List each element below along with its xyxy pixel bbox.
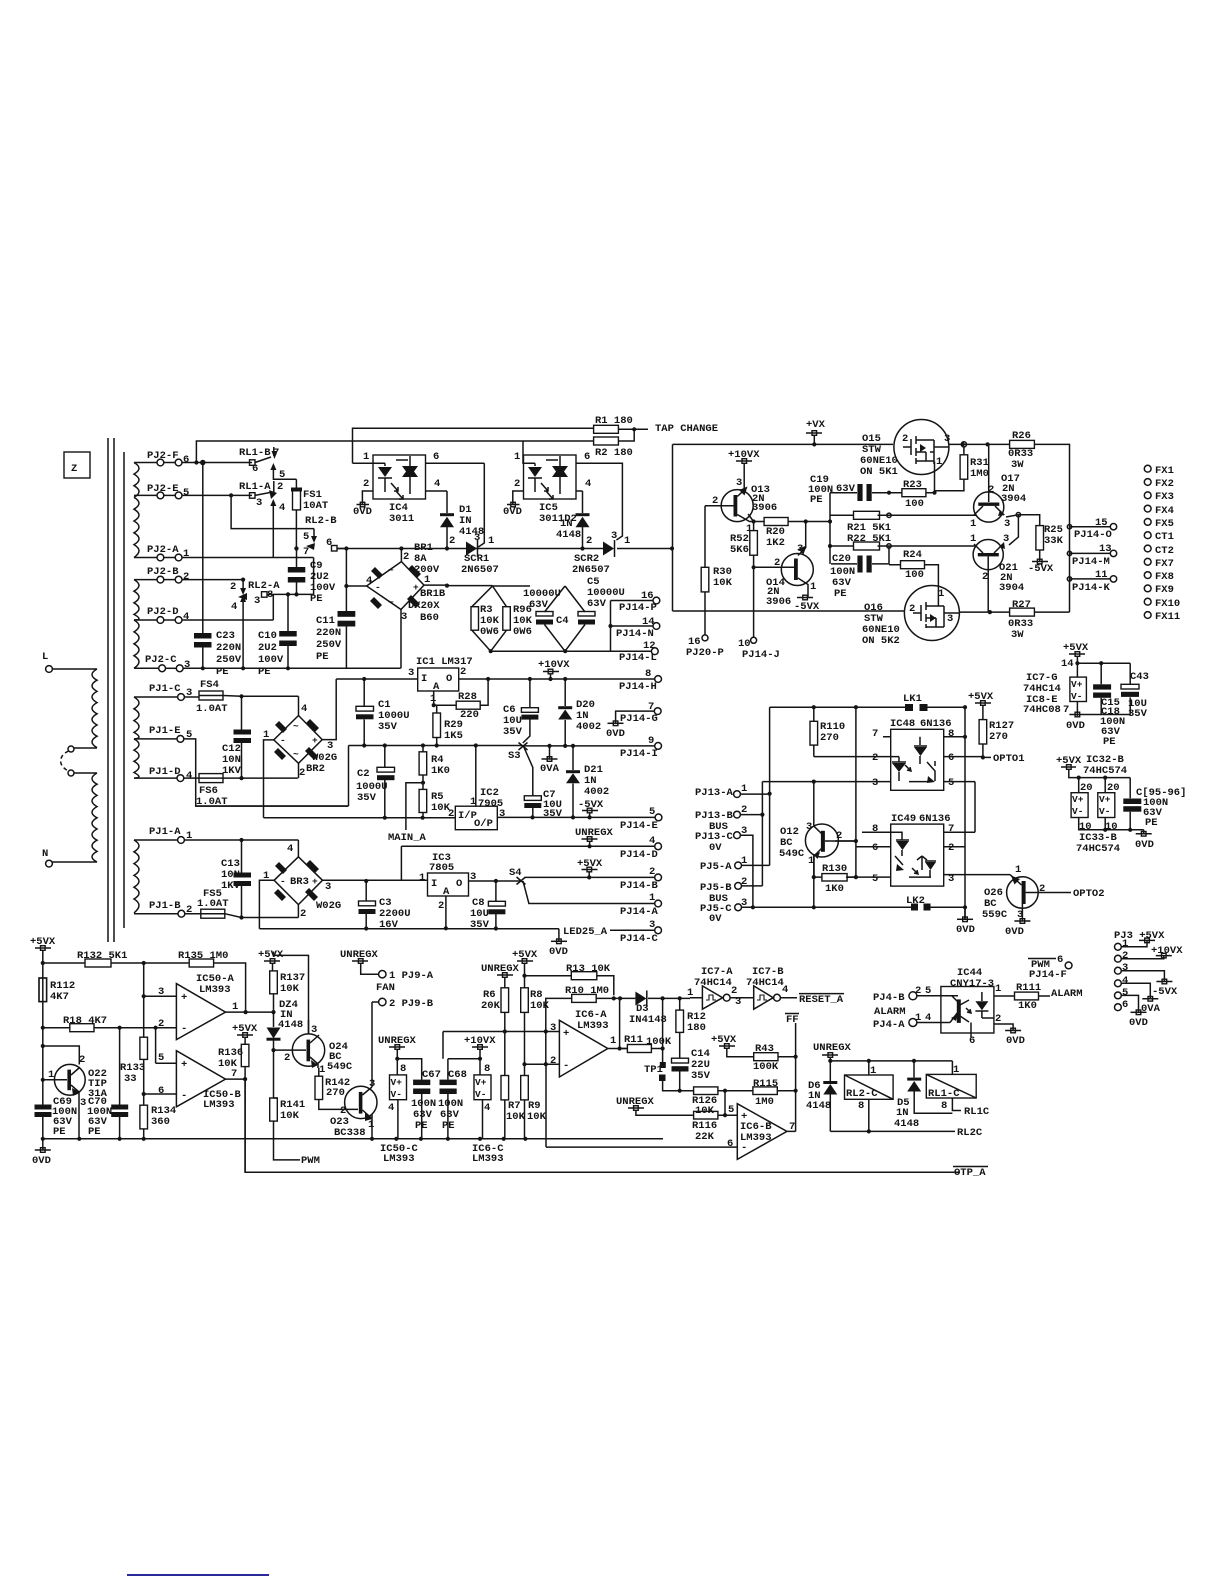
svg-text:4: 4: [287, 843, 293, 855]
transistor O21: [970, 533, 1024, 612]
inverter IC7-B: [735, 966, 797, 1009]
wire top rail y963: [41, 961, 246, 1012]
svg-text:5: 5: [872, 873, 878, 885]
node RL1C: [964, 1106, 990, 1118]
connector PJ9-B: [372, 998, 434, 1010]
svg-text:3: 3: [184, 659, 190, 671]
svg-text:V+: V+: [475, 1077, 487, 1088]
resistor R3: [471, 586, 500, 651]
svg-text:4: 4: [279, 502, 285, 514]
MOSFET O15: [860, 420, 950, 493]
svg-text:3: 3: [408, 667, 414, 679]
capacitor C11: [316, 549, 355, 669]
connector PJ2-F: [134, 450, 252, 466]
svg-text:ON 5K2: ON 5K2: [862, 635, 900, 647]
connector PJ14-E: [620, 806, 662, 832]
svg-text:V-: V-: [1071, 691, 1082, 702]
resistor R8: [521, 988, 550, 1076]
svg-text:3: 3: [947, 613, 953, 625]
svg-text:2: 2: [514, 478, 520, 490]
svg-text:-5VX: -5VX: [1028, 563, 1054, 575]
svg-text:4002: 4002: [584, 786, 609, 798]
svg-text:RL2-A: RL2-A: [248, 580, 280, 592]
resistor R127: [979, 720, 1014, 758]
opto-isolator IC4: [353, 451, 485, 504]
connector PJ20-P: [686, 635, 724, 659]
wire tap-change R1 row: [353, 427, 649, 463]
capacitor C23: [194, 460, 242, 678]
svg-text:2N6507: 2N6507: [461, 564, 499, 576]
svg-text:PE: PE: [810, 494, 823, 506]
svg-text:0VD: 0VD: [1005, 926, 1024, 938]
node OPTO1: [981, 753, 1025, 765]
svg-text:PE: PE: [1145, 817, 1158, 829]
connector FX8: [1144, 571, 1174, 583]
capacitor C2: [356, 746, 395, 818]
svg-text:20K: 20K: [481, 1000, 501, 1012]
svg-text:3906: 3906: [752, 502, 777, 514]
resistor R24: [889, 549, 938, 592]
svg-text:PJ5-A: PJ5-A: [700, 861, 732, 873]
svg-text:2: 2: [438, 900, 444, 912]
resistor R28: [434, 679, 488, 721]
svg-text:1.0AT: 1.0AT: [196, 703, 228, 715]
svg-text:4: 4: [925, 1012, 931, 1024]
svg-text:PE: PE: [316, 651, 329, 663]
svg-text:PE: PE: [53, 1126, 66, 1138]
svg-text:FX11: FX11: [1155, 611, 1180, 623]
zener DZ4: [267, 999, 304, 1098]
transformer secondary winding S3 (PJ1-C..PJ1-D): [134, 697, 139, 778]
regulator IC2 7905: [448, 746, 655, 831]
svg-text:74HC14: 74HC14: [746, 977, 784, 989]
svg-text:5: 5: [183, 487, 189, 499]
svg-text:4: 4: [366, 575, 372, 587]
svg-text:V+: V+: [391, 1077, 403, 1088]
svg-text:PJ14-J: PJ14-J: [742, 649, 780, 661]
connector PJ2-D: [134, 594, 273, 623]
svg-text:10K: 10K: [280, 983, 300, 995]
svg-text:250V: 250V: [316, 639, 342, 651]
regulator IC1 LM317: [336, 656, 473, 707]
svg-text:PJ14-N: PJ14-N: [616, 628, 654, 640]
diode D6: [806, 1080, 837, 1131]
svg-text:~: ~: [293, 721, 299, 732]
svg-text:0VA: 0VA: [540, 763, 560, 775]
thyristor SCR2: [572, 530, 630, 576]
capacitor C69: [35, 1096, 78, 1139]
thyristor SCR1: [449, 463, 499, 576]
svg-text:R111: R111: [1016, 982, 1041, 994]
transistor O14: [754, 522, 817, 609]
svg-text:1: 1: [810, 581, 816, 593]
relay contact RL1-B: [239, 447, 296, 481]
ground 0VD (IC33-B): [1135, 830, 1154, 851]
svg-text:3: 3: [256, 497, 262, 509]
svg-text:PJ1-E: PJ1-E: [149, 725, 181, 737]
svg-text:-: -: [375, 582, 381, 593]
svg-text:1K5: 1K5: [444, 730, 463, 742]
svg-text:14: 14: [1061, 658, 1074, 670]
svg-text:6: 6: [183, 454, 189, 466]
svg-text:4: 4: [1122, 975, 1128, 987]
svg-text:180: 180: [687, 1022, 706, 1034]
wire PJ14-D rail y846.3: [401, 844, 655, 881]
svg-text:6: 6: [1057, 954, 1063, 966]
svg-text:PJ14-P: PJ14-P: [619, 602, 657, 614]
svg-text:IC48: IC48: [890, 718, 915, 730]
svg-text:250V: 250V: [216, 654, 242, 666]
svg-text:LM393: LM393: [577, 1020, 609, 1032]
capacitor C1: [356, 679, 410, 748]
svg-text:ALARM: ALARM: [874, 1006, 906, 1018]
svg-text:33K: 33K: [1044, 535, 1064, 547]
transistor Q22: [43, 1046, 108, 1141]
svg-text:5: 5: [279, 469, 285, 481]
svg-text:3: 3: [1003, 533, 1009, 545]
svg-text:2: 2: [299, 767, 305, 779]
svg-text:~: ~: [293, 749, 299, 760]
connector PJ13-B: [695, 782, 765, 886]
svg-text:PE: PE: [1103, 736, 1116, 748]
supply box IC32-B: [1071, 793, 1088, 818]
svg-text:PWM: PWM: [301, 1155, 320, 1167]
transistor Q12: [779, 707, 858, 877]
svg-text:5: 5: [1122, 987, 1128, 999]
svg-text:100: 100: [905, 498, 924, 510]
wire PJ14-I rail y745.9: [522, 744, 655, 748]
resistor R9: [521, 1076, 547, 1139]
svg-text:1: 1: [970, 533, 976, 545]
svg-text:Z: Z: [71, 463, 77, 475]
power +5VX (R127): [968, 691, 994, 720]
resistor R126: [680, 1087, 727, 1117]
resistor R27: [1008, 599, 1034, 641]
svg-text:35V: 35V: [357, 792, 377, 804]
connector CT1: [1144, 531, 1174, 543]
svg-text:2: 2: [550, 1055, 556, 1067]
ground 0VD (IC7-G): [1066, 712, 1130, 732]
svg-text:PJ14-A: PJ14-A: [620, 906, 659, 918]
svg-text:0V: 0V: [709, 913, 722, 925]
svg-text:C68: C68: [448, 1069, 467, 1081]
svg-text:PJ2-D: PJ2-D: [147, 606, 179, 618]
svg-text:R130: R130: [822, 863, 847, 875]
svg-text:1M0: 1M0: [755, 1096, 774, 1108]
svg-text:5: 5: [649, 806, 655, 818]
svg-text:6: 6: [158, 1085, 164, 1097]
svg-text:2: 2: [79, 1054, 85, 1066]
connector PJ1-A: [134, 826, 298, 843]
svg-text:-5VX: -5VX: [578, 799, 604, 811]
svg-text:3W: 3W: [1011, 629, 1024, 641]
svg-text:1KV: 1KV: [221, 880, 241, 892]
svg-text:7: 7: [1063, 704, 1069, 716]
svg-text:~: ~: [388, 597, 394, 608]
svg-text:+: +: [181, 1059, 187, 1071]
svg-text:LM393: LM393: [740, 1132, 772, 1144]
ground 0VD (IC5): [503, 502, 522, 518]
svg-text:4002: 4002: [576, 721, 601, 733]
svg-text:RL2-C: RL2-C: [846, 1088, 878, 1100]
svg-text:549C: 549C: [327, 1061, 353, 1073]
diode D1: [440, 491, 484, 549]
svg-text:2: 2: [277, 481, 283, 493]
svg-text:+: +: [413, 582, 419, 593]
svg-text:0VD: 0VD: [503, 506, 522, 518]
svg-text:2: 2: [183, 571, 189, 583]
svg-text:3: 3: [1122, 962, 1128, 974]
ground 0VD (O26): [1005, 919, 1030, 938]
fuse FS4: [196, 679, 298, 715]
svg-text:3: 3: [797, 543, 803, 555]
node RESET_A: [799, 994, 844, 1006]
svg-text:UNREGX: UNREGX: [481, 963, 520, 975]
svg-text:3011: 3011: [389, 513, 414, 525]
resistor R115: [725, 1078, 798, 1108]
svg-text:63V: 63V: [587, 598, 607, 610]
resistor R132: [77, 950, 127, 967]
svg-text:0VA: 0VA: [1141, 1003, 1161, 1015]
svg-text:3904: 3904: [999, 582, 1024, 594]
connector PJ5-C: [700, 897, 911, 925]
svg-text:1: 1: [514, 451, 520, 463]
svg-text:RL1-A: RL1-A: [239, 481, 271, 493]
svg-text:OTP_A: OTP_A: [954, 1167, 986, 1179]
svg-text:PJ2-C: PJ2-C: [145, 654, 177, 666]
svg-text:4: 4: [301, 703, 307, 715]
svg-text:6: 6: [1122, 999, 1128, 1011]
svg-text:5: 5: [948, 777, 954, 789]
svg-text:2: 2: [363, 478, 369, 490]
svg-text:ON 5K1: ON 5K1: [860, 466, 898, 478]
svg-text:C67: C67: [422, 1069, 441, 1081]
svg-text:6N136: 6N136: [920, 718, 952, 730]
svg-text:10K: 10K: [530, 1000, 550, 1012]
svg-text:R2 180: R2 180: [595, 447, 633, 459]
connector FX4: [1144, 505, 1174, 517]
opto-isolator IC49 6N136: [847, 813, 1010, 886]
resistor R22: [830, 533, 974, 550]
svg-text:2: 2: [586, 535, 592, 547]
node O17/O21 emitters + R25: [1006, 513, 1040, 546]
resistor R111: [994, 982, 1050, 1012]
svg-text:O: O: [446, 673, 452, 685]
fuse FS6: [196, 774, 298, 808]
svg-text:-5VX: -5VX: [1152, 986, 1178, 998]
svg-text:3: 3: [499, 808, 505, 820]
svg-text:35V: 35V: [543, 808, 563, 820]
ground 0VD (LK2): [956, 917, 975, 936]
svg-text:3: 3: [325, 881, 331, 893]
svg-text:7805: 7805: [429, 862, 454, 874]
connector PJ14-M: [1067, 543, 1116, 568]
svg-text:4148: 4148: [894, 1118, 919, 1130]
resistor R11: [620, 998, 672, 1062]
op-amp IC6-A: [443, 1009, 627, 1077]
svg-text:RL2C: RL2C: [957, 1127, 983, 1139]
ground 0VA (rail): [540, 746, 560, 775]
svg-text:4: 4: [231, 601, 237, 613]
svg-text:FX3: FX3: [1155, 491, 1174, 503]
resistor R110: [810, 707, 845, 756]
capacitor C70: [87, 1028, 128, 1139]
svg-text:4: 4: [585, 478, 591, 490]
svg-text:8: 8: [948, 728, 954, 740]
capacitor C19: [808, 474, 889, 564]
svg-text:270: 270: [326, 1087, 345, 1099]
svg-text:10K: 10K: [218, 1058, 238, 1070]
wire PWM row (long): [244, 1079, 246, 1172]
svg-text:4: 4: [186, 770, 192, 782]
svg-text:LK1: LK1: [903, 693, 922, 705]
resistor R30: [701, 506, 732, 635]
connector PJ14-I: [620, 735, 661, 760]
svg-text:100: 100: [905, 569, 924, 581]
resistor R26: [1008, 430, 1034, 471]
svg-text:3: 3: [806, 821, 812, 833]
wire MAIN rail y745.5: [196, 743, 522, 806]
wire PJ2-A to RL2-A output: [313, 558, 315, 595]
svg-text:5: 5: [303, 531, 309, 543]
svg-text:PE: PE: [834, 588, 847, 600]
svg-text:100K: 100K: [646, 1036, 672, 1048]
svg-text:100V: 100V: [258, 654, 284, 666]
wire rail y1138.8: [41, 1137, 663, 1141]
svg-text:PJ2-A: PJ2-A: [147, 544, 179, 556]
svg-text:16V: 16V: [379, 919, 399, 931]
resistor R116: [692, 1091, 737, 1143]
svg-text:CT1: CT1: [1155, 531, 1174, 543]
transformer primary winding P1: [42, 651, 97, 752]
svg-text:+10VX: +10VX: [1151, 945, 1183, 957]
wire main SCR bus: [294, 546, 466, 550]
svg-text:2U2: 2U2: [258, 642, 277, 654]
svg-text:PE: PE: [88, 1126, 101, 1138]
svg-text:L: L: [42, 651, 48, 663]
svg-text:5: 5: [925, 985, 931, 997]
svg-text:~: ~: [388, 565, 394, 576]
connector PJ13-C: [695, 825, 755, 909]
diode D3: [620, 991, 690, 1049]
switch S3: [508, 743, 533, 796]
svg-text:4: 4: [484, 1102, 490, 1114]
relay coil RL2-C: [845, 1065, 894, 1134]
svg-text:74HC574: 74HC574: [1076, 843, 1120, 855]
svg-text:O/P: O/P: [474, 818, 493, 830]
svg-text:3: 3: [872, 777, 878, 789]
svg-text:V+: V+: [1099, 794, 1111, 805]
resistor R130: [812, 855, 858, 909]
svg-text:-5VX: -5VX: [794, 601, 820, 613]
capacitor C7: [524, 789, 562, 820]
resistor R21: [830, 511, 974, 534]
svg-text:4: 4: [183, 611, 189, 623]
svg-text:R24: R24: [903, 549, 922, 561]
svg-text:PJ4-A: PJ4-A: [873, 1019, 905, 1031]
svg-text:4K7: 4K7: [50, 991, 69, 1003]
svg-text:0VD: 0VD: [1066, 720, 1085, 732]
svg-text:R135 1M0: R135 1M0: [178, 950, 228, 962]
svg-text:1: 1: [363, 451, 369, 463]
power +10VX (O13): [728, 449, 760, 463]
svg-text:OPTO2: OPTO2: [1073, 888, 1105, 900]
svg-text:PJ13-A: PJ13-A: [695, 787, 734, 799]
power UNREGX (PJ9): [340, 949, 379, 974]
svg-text:PJ14-B: PJ14-B: [620, 880, 659, 892]
connector PJ2-E: [134, 483, 252, 499]
svg-text:1: 1: [368, 1119, 374, 1131]
svg-text:3: 3: [944, 433, 950, 445]
svg-text:2: 2: [872, 752, 878, 764]
resistor R141: [270, 1098, 306, 1160]
link LK1: [770, 693, 965, 711]
svg-text:35V: 35V: [691, 1070, 711, 1082]
svg-text:R23: R23: [903, 479, 922, 491]
svg-text:LM393: LM393: [472, 1153, 504, 1165]
resistor R5: [419, 783, 451, 818]
transistor O17: [970, 444, 1026, 530]
transistor block outer wires: [673, 442, 1070, 614]
svg-text:4148: 4148: [556, 529, 581, 541]
svg-text:PJ1-D: PJ1-D: [149, 766, 181, 778]
power -5VX (R25): [1028, 559, 1054, 575]
svg-text:2N6507: 2N6507: [572, 564, 610, 576]
connector PJ1-E: [134, 725, 349, 806]
svg-text:3: 3: [401, 611, 407, 623]
svg-text:1K0: 1K0: [431, 765, 450, 777]
connector PJ14-H: [619, 668, 661, 693]
svg-text:PE: PE: [310, 593, 323, 605]
sheet symbol Z: [64, 452, 90, 478]
svg-text:1: 1: [624, 535, 630, 547]
connector FX1: [1144, 465, 1174, 477]
resistor R20: [754, 518, 833, 550]
connector PJ2-B: [134, 566, 243, 583]
connector FX11: [1144, 611, 1180, 623]
ground 0VD (LED25): [549, 939, 568, 958]
svg-text:10K: 10K: [280, 1110, 300, 1122]
node ALARM (label): [874, 1006, 906, 1018]
ground 0VD (bottom left): [32, 1139, 51, 1167]
svg-text:+: +: [181, 992, 187, 1004]
power UNREGX (IC50-C): [378, 1035, 422, 1080]
svg-text:559C: 559C: [982, 909, 1008, 921]
svg-text:FF: FF: [786, 1014, 799, 1026]
svg-text:6: 6: [433, 451, 439, 463]
supply box IC6-C: [472, 1063, 504, 1165]
wire positive rail y586: [447, 585, 493, 587]
svg-text:+10VX: +10VX: [538, 659, 570, 671]
connector PJ14-C: [620, 919, 661, 945]
connector PJ14-B: [620, 866, 661, 892]
svg-text:LED25_A: LED25_A: [563, 926, 608, 938]
svg-text:0VD: 0VD: [32, 1155, 51, 1167]
capacitor C10: [258, 592, 297, 678]
svg-text:0VD: 0VD: [549, 946, 568, 958]
diode D2 (1N4148): [556, 491, 590, 551]
svg-text:63V: 63V: [836, 483, 856, 495]
svg-text:7: 7: [872, 728, 878, 740]
svg-text:C2: C2: [357, 768, 370, 780]
svg-text:2: 2: [915, 985, 921, 997]
power +5VX (R43): [711, 1034, 754, 1057]
switch S4: [509, 867, 655, 904]
power -5VX (O14): [794, 595, 820, 613]
capacitor C67: [411, 1069, 441, 1139]
connector FX3: [1144, 491, 1174, 503]
link LK2: [906, 895, 965, 919]
